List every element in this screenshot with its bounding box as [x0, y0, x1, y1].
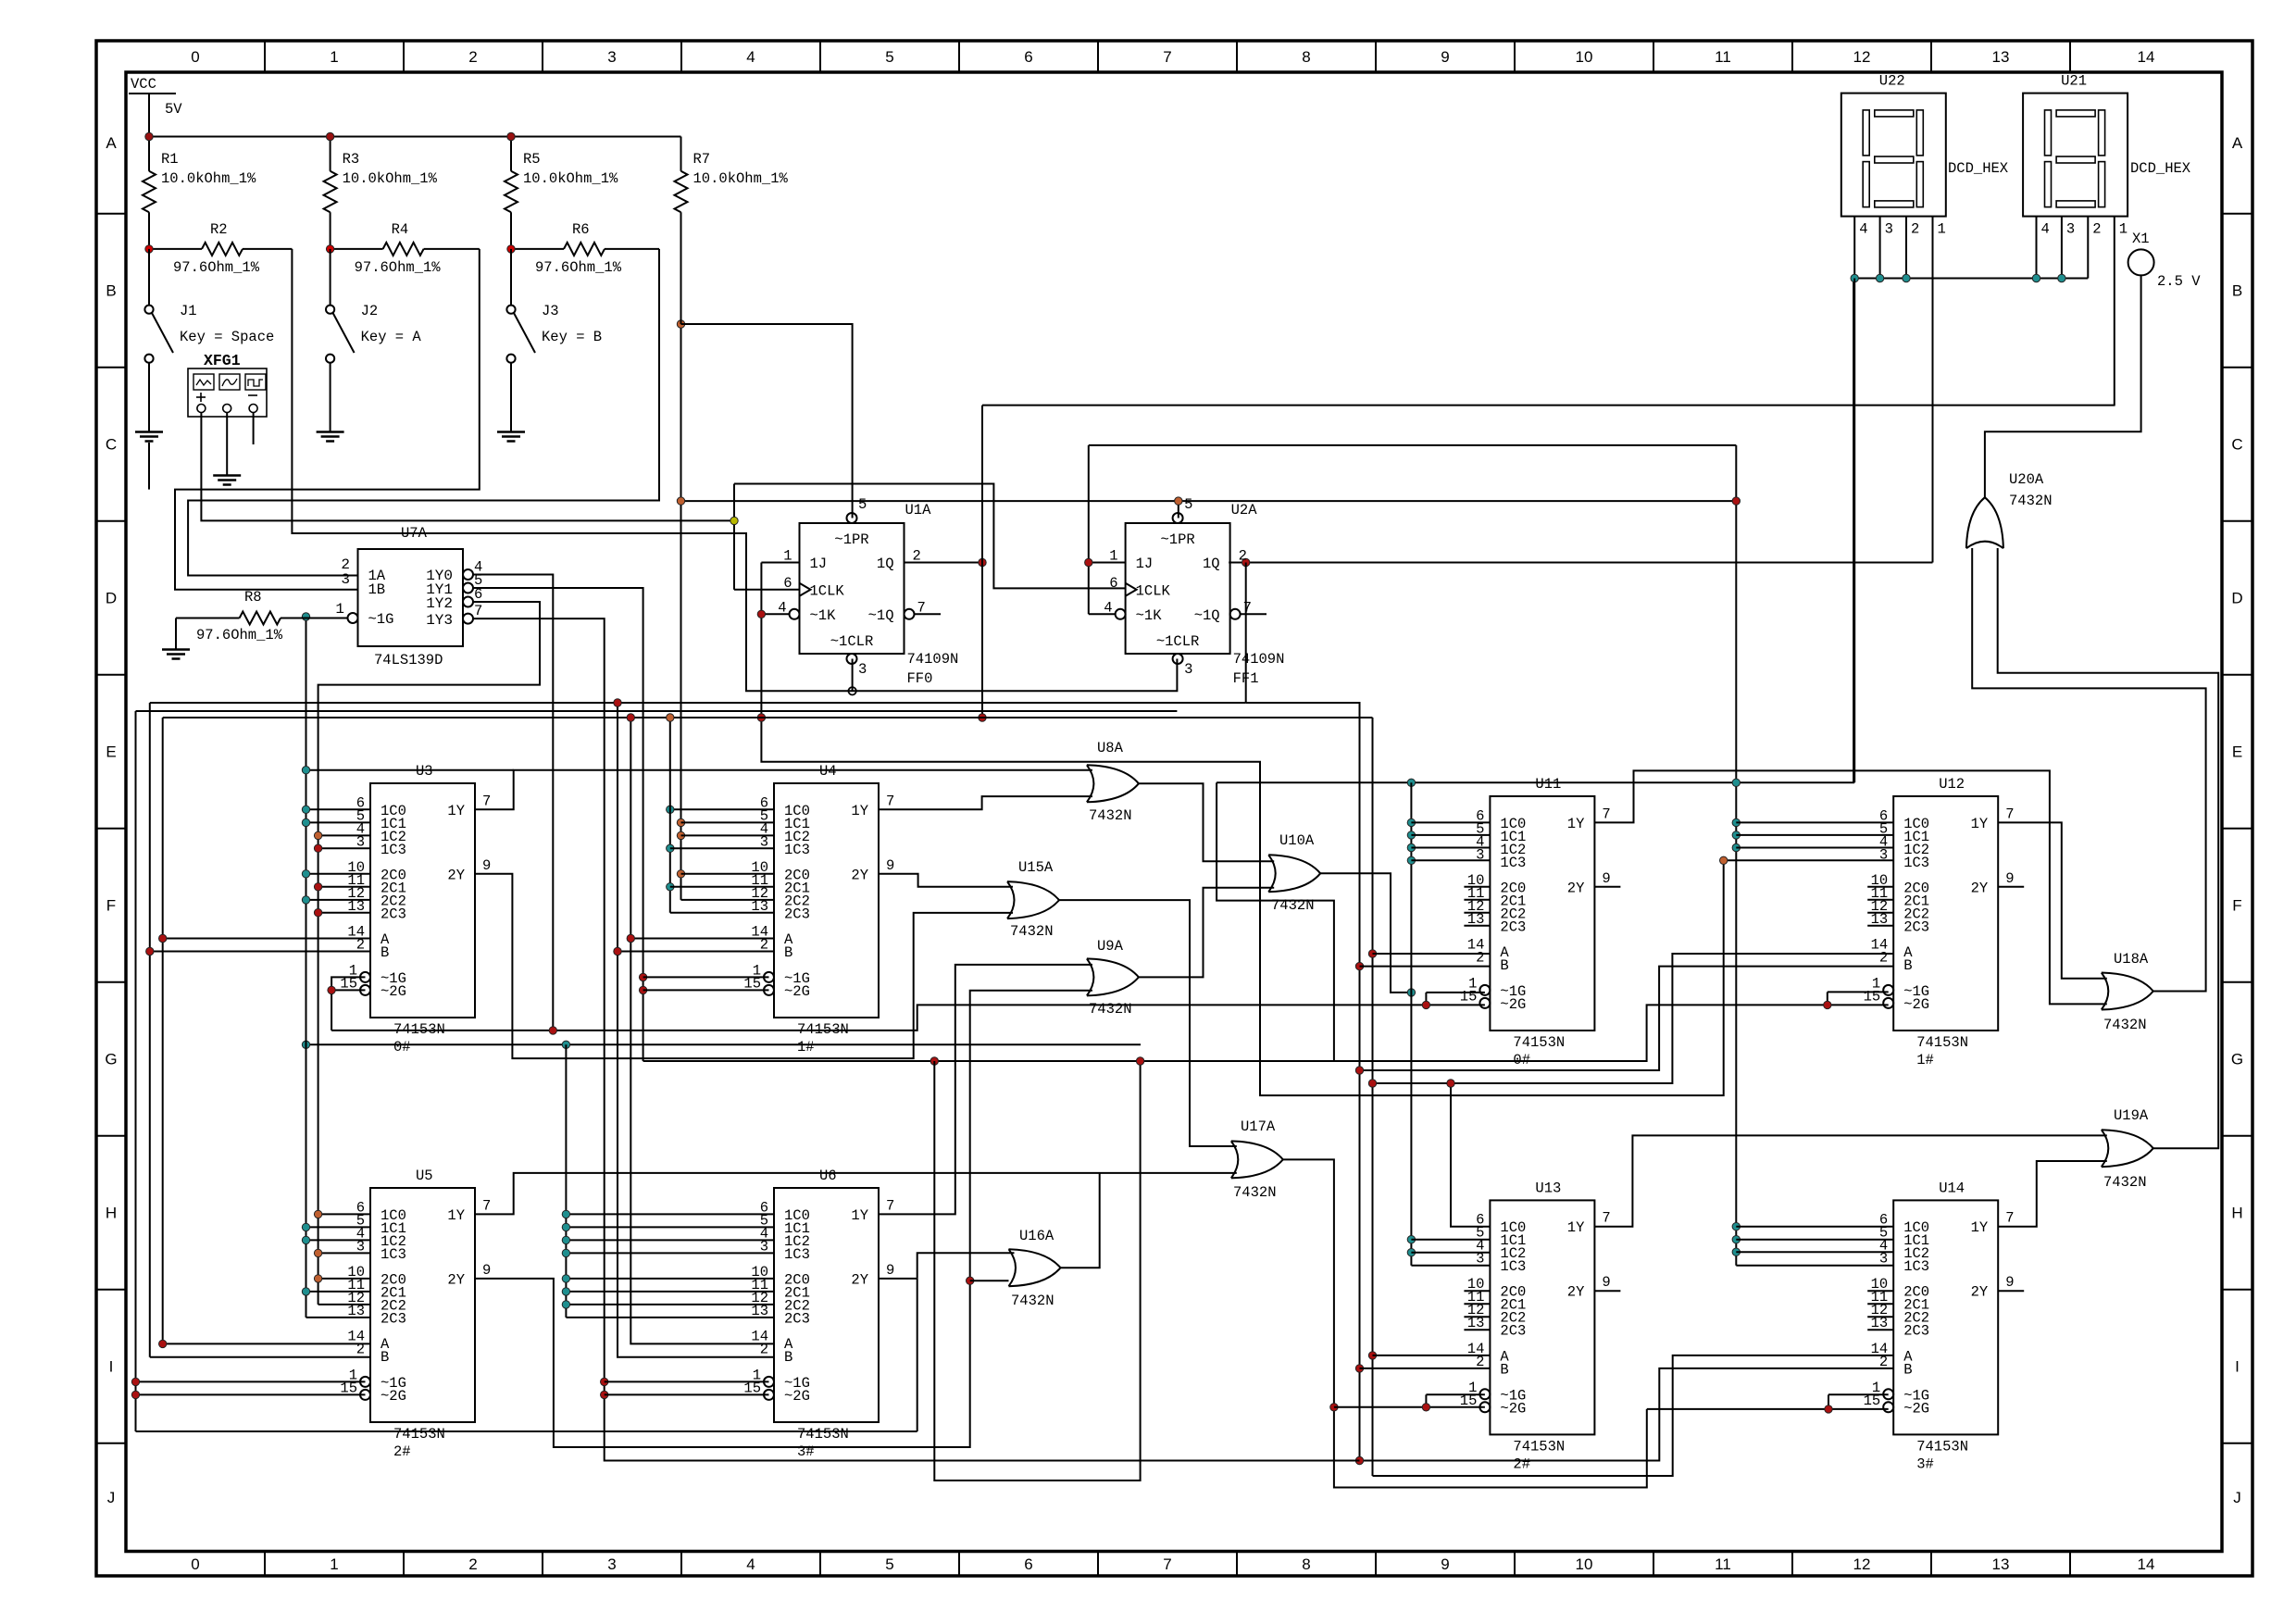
mux U11 74153N 0# [1490, 796, 1594, 1031]
svg-text:H: H [106, 1205, 117, 1222]
wire U1A 1Q stub [905, 562, 983, 564]
svg-text:3: 3 [760, 833, 768, 850]
wire select A feeder left [162, 718, 164, 1343]
svg-text:U5: U5 [416, 1168, 433, 1184]
wire U3 input 4 [306, 873, 371, 875]
svg-text:3: 3 [1879, 846, 1888, 863]
wire U19A out [1998, 548, 2219, 1148]
svg-text:4: 4 [746, 48, 755, 66]
svg-text:E: E [2232, 743, 2242, 761]
wire U12 2Y stub [1998, 886, 2024, 888]
svg-text:B: B [784, 944, 792, 961]
wire B to U14 [1360, 1368, 1894, 1461]
svg-text:3: 3 [607, 1555, 616, 1573]
wire U3 input 3 [318, 847, 370, 849]
display U21 DCD_HEX [2023, 94, 2128, 217]
wire U22 pin drop [1853, 217, 1855, 279]
svg-text:U3: U3 [416, 763, 433, 780]
svg-text:2C3: 2C3 [1500, 918, 1526, 935]
svg-text:9: 9 [886, 857, 894, 874]
svg-text:0#: 0# [393, 1039, 411, 1056]
svg-text:3: 3 [2066, 221, 2075, 238]
svg-text:8: 8 [1302, 48, 1310, 66]
svg-text:U19A: U19A [2114, 1107, 2149, 1124]
svg-text:2Y: 2Y [447, 1271, 465, 1288]
wire U16A out [1061, 1173, 1100, 1268]
svg-text:11: 11 [1715, 1555, 1731, 1573]
or-gate U8A 7432N [1087, 765, 1139, 802]
wire U17A out [1283, 1159, 1647, 1487]
svg-text:7: 7 [1163, 1555, 1171, 1573]
wire select B jog [1246, 703, 1360, 706]
wire clock to U1A CLK [734, 589, 800, 591]
wire U6 input 3 [566, 1252, 774, 1254]
wire U1A ~1CLR stub [852, 659, 854, 692]
wire U21 pin2 drop [2087, 217, 2089, 279]
wire U6 input 0 [566, 1213, 774, 1215]
svg-text:2: 2 [356, 937, 365, 954]
node FF0 clear junction [848, 687, 855, 694]
wire Key B net to U7A 1A [188, 249, 659, 576]
svg-text:1: 1 [2119, 221, 2128, 238]
wire top rail [149, 136, 681, 138]
or-gate U15A 7432N [1007, 881, 1059, 918]
svg-text:G: G [2231, 1051, 2243, 1068]
svg-text:U20A: U20A [2009, 471, 2044, 488]
svg-text:74153N: 74153N [1513, 1438, 1565, 1455]
wire U6 2Y up to U16A [917, 1253, 1015, 1279]
svg-text:H: H [2231, 1205, 2242, 1222]
svg-text:97.6Ohm_1%: 97.6Ohm_1% [173, 259, 260, 276]
or-gate U19A 7432N [2102, 1130, 2153, 1167]
svg-text:2.5 V: 2.5 V [2157, 273, 2201, 290]
svg-text:9: 9 [482, 1262, 491, 1279]
svg-text:3: 3 [356, 1238, 365, 1255]
svg-text:7: 7 [474, 603, 482, 619]
node R7 preset tap [677, 320, 684, 328]
resistor R2 97.6Ohm [149, 248, 202, 250]
or-gate U17A 7432N [1231, 1141, 1283, 1178]
wire U22 pin drop [1905, 217, 1907, 279]
wire U21 pin4 drop [2036, 217, 2038, 279]
wire U4 A drop [630, 718, 774, 1343]
wire U5 ~2G wire [136, 1393, 366, 1395]
svg-text:97.6Ohm_1%: 97.6Ohm_1% [535, 259, 622, 276]
svg-text:DCD_HEX: DCD_HEX [1948, 160, 2009, 177]
wire U4 1C0 stub [670, 808, 774, 810]
svg-text:U21: U21 [2061, 73, 2087, 90]
svg-text:~2G: ~2G [381, 1388, 406, 1405]
svg-text:2: 2 [1911, 221, 1919, 238]
svg-text:3: 3 [1476, 846, 1484, 863]
svg-text:15: 15 [1460, 1393, 1478, 1409]
svg-text:R1: R1 [161, 151, 179, 168]
wire U3 2Y out [475, 874, 1013, 1058]
svg-text:U11: U11 [1535, 776, 1561, 793]
wire U3 input 0 [306, 808, 371, 810]
svg-text:10.0kOhm_1%: 10.0kOhm_1% [693, 170, 789, 187]
svg-text:7432N: 7432N [1089, 1001, 1132, 1018]
wire U1A 1J stub [761, 562, 799, 564]
svg-text:R6: R6 [572, 221, 590, 238]
wire U3 B wire [150, 951, 370, 953]
svg-text:~2G: ~2G [1500, 996, 1526, 1013]
svg-text:14: 14 [2138, 48, 2155, 66]
svg-text:1#: 1# [1916, 1052, 1934, 1068]
svg-text:3#: 3# [797, 1443, 815, 1460]
wire U13 A wire [1373, 1355, 1491, 1356]
svg-text:74153N: 74153N [1916, 1438, 1968, 1455]
wire U22 pin4 long [1853, 279, 1855, 783]
svg-text:15: 15 [743, 1380, 761, 1396]
switch J3 Key = B [510, 249, 512, 306]
svg-text:3: 3 [341, 571, 350, 588]
wire U4 2C2 stub [681, 899, 775, 901]
wire select B line [150, 702, 1246, 704]
svg-text:C: C [2231, 436, 2242, 454]
wire U22 pin drop [1879, 217, 1881, 279]
wire U12 G2 net upper [1217, 782, 1334, 1061]
svg-text:13: 13 [1992, 1555, 2010, 1573]
wire U7A 1Y0 net [473, 575, 553, 1031]
svg-text:2: 2 [1879, 950, 1888, 967]
wire 1Y1 net lower [643, 1005, 1889, 1061]
resistor R5 10.0kOhm [510, 137, 512, 171]
wire U6 input 6 [566, 1304, 774, 1305]
wire U5 input 4 [318, 1278, 370, 1280]
svg-text:I: I [109, 1358, 114, 1376]
svg-text:1: 1 [1938, 221, 1946, 238]
wire U6 input 4 [566, 1278, 774, 1280]
wire U21 pin3 drop [2061, 217, 2063, 279]
wire U14 1C3 [1736, 1265, 1893, 1267]
svg-text:1Y: 1Y [1971, 816, 1989, 832]
svg-text:2#: 2# [1513, 1455, 1530, 1472]
svg-text:15: 15 [340, 975, 357, 992]
svg-text:1: 1 [335, 601, 344, 618]
svg-text:~1G: ~1G [368, 611, 394, 628]
svg-text:U7A: U7A [401, 525, 428, 542]
svg-text:6: 6 [1109, 575, 1117, 592]
wire U11 A wire [1373, 953, 1491, 955]
svg-text:1Q: 1Q [1203, 556, 1220, 572]
node select B tap [1242, 558, 1250, 566]
svg-text:7432N: 7432N [2103, 1174, 2147, 1191]
svg-text:U2A: U2A [1231, 502, 1258, 518]
svg-text:4: 4 [1104, 599, 1112, 616]
svg-text:1Y: 1Y [447, 1207, 465, 1224]
svg-text:9: 9 [1441, 1555, 1449, 1573]
wire U11 1C input [1411, 847, 1490, 849]
or-gate U9A 7432N [1087, 958, 1139, 995]
svg-text:VCC: VCC [131, 76, 156, 93]
mux U13 74153N 2# [1490, 1200, 1594, 1434]
svg-text:1Y: 1Y [1567, 1219, 1585, 1236]
flip-flop U2A 74109N FF1 [1126, 523, 1230, 654]
wire U3 G2 stub [331, 989, 365, 991]
svg-text:FF1: FF1 [1233, 670, 1259, 687]
mux U3 74153N 0# [370, 783, 475, 1018]
node U1A 1Q junction [979, 558, 986, 566]
wire U13 B wire [1360, 1368, 1491, 1369]
svg-text:~2G: ~2G [1903, 1400, 1929, 1417]
svg-text:5: 5 [885, 1555, 893, 1573]
svg-text:13: 13 [751, 898, 768, 915]
svg-text:X1: X1 [2132, 231, 2150, 247]
wire display seg net [1217, 281, 1853, 782]
wire U13 G hook [1426, 1393, 1485, 1395]
wire select A vertical [981, 406, 983, 718]
wire U1A JK vertical [761, 563, 1723, 1096]
svg-text:7: 7 [886, 1197, 894, 1214]
wire U11 2Y stub [1594, 886, 1620, 888]
svg-text:2C3: 2C3 [381, 906, 406, 922]
wire select A line [163, 717, 1373, 718]
svg-text:2C3: 2C3 [381, 1310, 406, 1327]
wire U5 2C3 [306, 1317, 371, 1318]
svg-text:J: J [2233, 1489, 2241, 1506]
node U2A preset junction [1175, 497, 1182, 505]
wire U4 1C3 stub [670, 847, 774, 849]
svg-text:2C3: 2C3 [784, 1310, 810, 1327]
wire U4 1Y out [879, 796, 1092, 809]
svg-text:U1A: U1A [905, 502, 932, 518]
svg-text:~1K: ~1K [1136, 607, 1163, 624]
svg-text:1: 1 [783, 548, 792, 565]
svg-text:12: 12 [1853, 48, 1871, 66]
svg-text:15: 15 [1460, 988, 1478, 1005]
svg-text:11: 11 [1715, 48, 1731, 66]
wire U13 1Y out [1594, 1135, 2106, 1226]
svg-text:1C3: 1C3 [381, 1246, 406, 1263]
wire 0 bus to U8A [306, 769, 514, 771]
wire U3 input 1 [306, 821, 371, 823]
wire J1 branch down [148, 443, 150, 490]
wire U3 input 7 [318, 912, 370, 914]
svg-text:5: 5 [1184, 496, 1192, 513]
wire U4 2C3 stub [670, 912, 774, 914]
svg-text:6: 6 [1024, 48, 1032, 66]
svg-text:13: 13 [347, 1303, 365, 1319]
wire U21 pin1 drop [2114, 217, 2115, 406]
wire U13 G hookv [1425, 1394, 1427, 1407]
svg-text:1J: 1J [1136, 556, 1154, 572]
wire U4 G1 wire [643, 976, 769, 978]
svg-text:74153N: 74153N [797, 1021, 849, 1038]
wire U5 B wire [150, 1356, 370, 1358]
svg-text:7432N: 7432N [1271, 897, 1315, 914]
svg-text:4: 4 [2041, 221, 2050, 238]
svg-text:~1CLR: ~1CLR [830, 633, 874, 650]
svg-text:DCD_HEX: DCD_HEX [2130, 160, 2191, 177]
svg-text:0: 0 [191, 48, 199, 66]
svg-text:3: 3 [858, 661, 867, 678]
svg-text:B: B [1500, 1361, 1508, 1378]
wire U14 2Y stub [1998, 1290, 2024, 1292]
svg-text:74153N: 74153N [797, 1426, 849, 1443]
svg-text:1C3: 1C3 [1903, 1258, 1929, 1275]
svg-text:7: 7 [482, 1197, 491, 1214]
svg-text:Key = Space: Key = Space [180, 329, 274, 345]
svg-text:6: 6 [474, 586, 482, 603]
wire U12 1C3 [1724, 859, 1894, 861]
wire U14 1C0 [1736, 1226, 1893, 1228]
svg-text:1C3: 1C3 [1500, 1258, 1526, 1275]
wire select G feeder left [135, 711, 137, 1431]
svg-text:2: 2 [468, 48, 477, 66]
wire U2A 1J stub [1089, 562, 1126, 564]
svg-text:15: 15 [743, 975, 761, 992]
wire select B vertical [1245, 563, 1247, 704]
wire U4 1C1 stub [681, 821, 775, 823]
wire U6 input bus [565, 1044, 567, 1318]
svg-text:~2G: ~2G [784, 983, 810, 1000]
svg-text:1Y: 1Y [447, 803, 465, 819]
wire U12 1C input [1736, 821, 1893, 823]
svg-text:U9A: U9A [1097, 938, 1124, 955]
wire Key A net to U7A 1B [175, 249, 480, 590]
svg-text:B: B [1903, 957, 1912, 974]
wire U4 A stub [630, 938, 774, 940]
wire U14 1Y out [1998, 1161, 2107, 1227]
mux U4 74153N 1# [774, 783, 879, 1018]
svg-text:U15A: U15A [1018, 859, 1054, 876]
wire U6 input 5 [566, 1291, 774, 1293]
svg-text:1Y: 1Y [1567, 816, 1585, 832]
svg-text:2: 2 [913, 548, 921, 565]
svg-text:10: 10 [1576, 48, 1593, 66]
svg-text:3: 3 [607, 48, 616, 66]
wire U2A JK to east bus [1089, 444, 1737, 446]
node divider junctions [145, 245, 153, 253]
svg-text:J2: J2 [361, 303, 379, 319]
svg-text:1C3: 1C3 [381, 842, 406, 858]
or-gate U18A 7432N [2102, 973, 2153, 1010]
wire U9A out [1139, 888, 1274, 978]
wire U5 input 5 [306, 1291, 371, 1293]
svg-text:3: 3 [356, 833, 365, 850]
svg-text:3: 3 [1476, 1251, 1484, 1268]
wire U2A ~1K stub [1089, 613, 1116, 615]
svg-text:~2G: ~2G [1903, 996, 1929, 1013]
wire U10A out [1320, 873, 1411, 993]
wire preset to U2A ~1PR [1178, 501, 1179, 518]
or-gate U16A 7432N [1009, 1249, 1061, 1286]
svg-text:3#: 3# [1916, 1455, 1934, 1472]
svg-text:2Y: 2Y [851, 867, 868, 883]
svg-text:74153N: 74153N [1916, 1034, 1968, 1051]
svg-text:7432N: 7432N [1010, 923, 1054, 940]
svg-text:U14: U14 [1939, 1180, 1965, 1196]
wire L1 bottom [136, 1430, 917, 1432]
svg-text:7: 7 [1243, 599, 1252, 616]
svg-text:7432N: 7432N [1011, 1293, 1054, 1309]
wire U4 bus a [669, 718, 671, 913]
wire U2A ~1Q stub [1241, 613, 1267, 615]
svg-text:1Y: 1Y [1971, 1219, 1989, 1236]
svg-text:1Q: 1Q [877, 556, 894, 572]
svg-text:R4: R4 [392, 221, 409, 238]
svg-text:F: F [2232, 897, 2241, 915]
svg-text:1: 1 [1109, 548, 1117, 565]
wire U3 G net line [331, 1005, 1485, 1031]
svg-text:U18A: U18A [2114, 951, 2149, 968]
wire U6 2Y down to L1 [917, 1279, 918, 1431]
svg-text:~2G: ~2G [784, 1388, 810, 1405]
node clock junction [730, 517, 738, 524]
wire U6 input 7 [566, 1317, 774, 1318]
wire U13 1C0 feeder [1451, 1083, 1490, 1227]
wire U18A out [1972, 548, 2205, 992]
svg-text:1CLK: 1CLK [810, 582, 845, 599]
svg-text:F: F [106, 897, 116, 915]
svg-text:7: 7 [2005, 1210, 2014, 1227]
wire U11 G1 hookv [1425, 993, 1427, 1006]
svg-text:1: 1 [330, 1555, 338, 1573]
svg-text:14: 14 [2138, 1555, 2155, 1573]
svg-text:9: 9 [886, 1262, 894, 1279]
svg-text:2: 2 [356, 1342, 365, 1358]
wire U7A 1Y3 net [473, 618, 1360, 1460]
svg-text:9: 9 [482, 857, 491, 874]
svg-text:13: 13 [751, 1303, 768, 1319]
svg-text:I: I [2235, 1358, 2240, 1376]
svg-text:1C3: 1C3 [784, 1246, 810, 1263]
wire U6 1Y out [879, 965, 1092, 1215]
svg-text:~1PR: ~1PR [834, 531, 868, 548]
wire U5 input 2 [306, 1239, 371, 1241]
svg-text:1Y2: 1Y2 [426, 595, 453, 612]
svg-text:9: 9 [1441, 48, 1449, 66]
svg-text:E: E [106, 743, 116, 761]
wire U4 B stub [618, 951, 774, 953]
wire U22 pin1 drop [1932, 217, 1934, 563]
svg-text:R7: R7 [693, 151, 711, 168]
wire U11 1Y out [1594, 770, 2106, 1004]
svg-text:7: 7 [2005, 806, 2014, 822]
svg-text:C: C [106, 436, 117, 454]
wire U3 1Y out [475, 770, 1092, 810]
wire VCC to rail [148, 94, 150, 137]
svg-text:A: A [106, 134, 117, 152]
svg-text:74153N: 74153N [1513, 1034, 1565, 1051]
probe X1 2.5V [2128, 249, 2154, 275]
svg-text:~1Q: ~1Q [868, 607, 894, 624]
svg-text:2: 2 [1239, 548, 1247, 565]
resistor R8 97.6Ohm [176, 618, 240, 619]
svg-text:2C3: 2C3 [1500, 1323, 1526, 1340]
svg-text:Key = B: Key = B [542, 329, 602, 345]
wire U7A 1Y2 net [318, 602, 540, 1305]
svg-text:B: B [2232, 282, 2242, 300]
svg-text:10.0kOhm_1%: 10.0kOhm_1% [343, 170, 438, 187]
svg-text:B: B [381, 944, 389, 961]
svg-text:D: D [2231, 590, 2242, 607]
wire U14 G hook [1828, 1393, 1889, 1395]
wire U4 2C1 stub [670, 886, 774, 888]
svg-text:7432N: 7432N [2009, 493, 2053, 509]
svg-text:5V: 5V [165, 101, 182, 118]
svg-text:U6: U6 [819, 1168, 837, 1184]
svg-text:1C3: 1C3 [1903, 855, 1929, 871]
resistor R3 10.0kOhm [330, 137, 331, 171]
svg-text:2: 2 [760, 937, 768, 954]
svg-text:1C3: 1C3 [1500, 855, 1526, 871]
svg-text:~1Q: ~1Q [1194, 607, 1220, 624]
svg-text:5: 5 [885, 48, 893, 66]
wire U14 G2 wire [1647, 1408, 1889, 1410]
wire U5 ~1G wire [136, 1380, 366, 1382]
